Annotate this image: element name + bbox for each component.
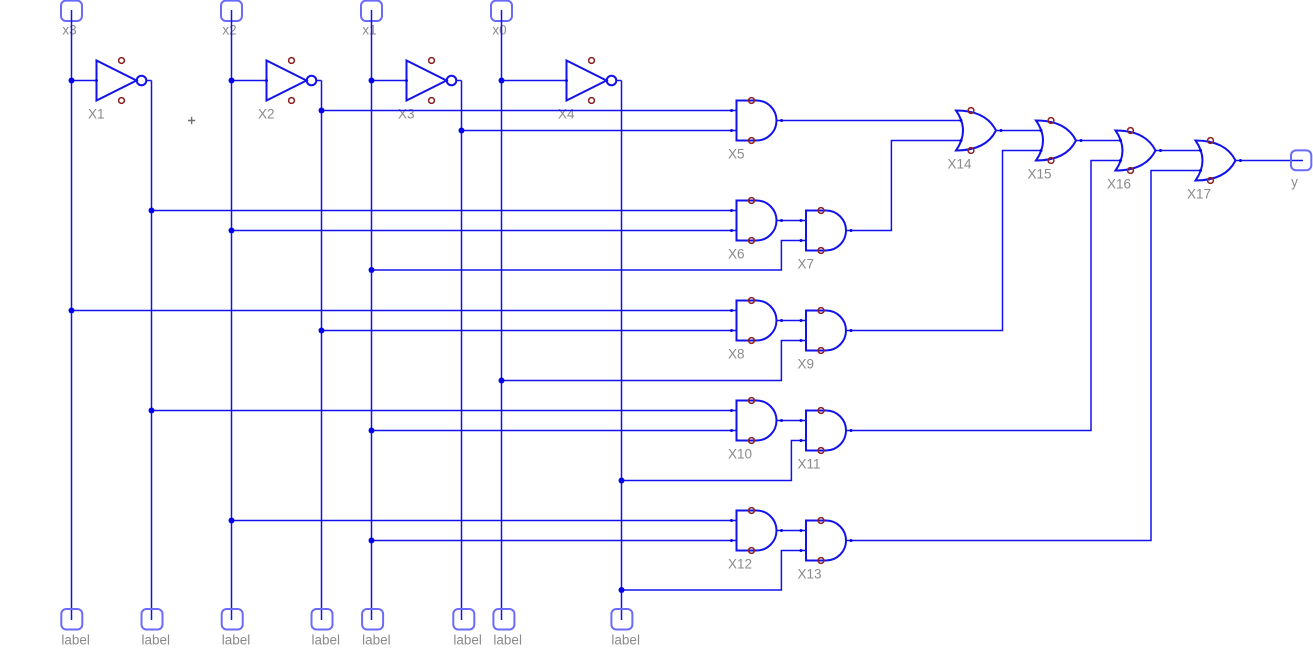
pin X7 in2 pin [800,239,803,242]
pin X12 in2 pin [730,539,733,542]
wire X6 input1 [152,210,737,212]
svg-text:label: label [493,633,522,648]
pin X3 in pin [405,79,408,82]
node x2/X6 [229,228,235,234]
and-gate X11 [806,408,846,454]
and-gate X10 [737,398,777,444]
pin X11 in2 pin [800,439,803,442]
pin X15 in2 pin [1040,149,1043,152]
svg-text:label: label [611,633,640,648]
inverter X2 [267,58,317,104]
wire X1 output to bus [146,80,152,82]
wire x3 to X1 input [72,80,97,82]
wire x3 bus (vertical) [71,10,73,620]
pin X9 in1 pin [800,319,803,322]
svg-text:X13: X13 [798,567,822,582]
svg-text:label: label [61,633,90,648]
wire X16 output to X17 [1156,150,1202,152]
wire X8 input1 [72,310,737,312]
node x0/X4 [499,78,505,84]
pin X9 out pin [850,329,853,332]
port label1 (bottom) [61,609,82,630]
pin X5 in1 pin [730,109,733,112]
or-gate X17 [1196,138,1236,184]
svg-text:X10: X10 [728,447,752,462]
and-gate X7 [806,208,846,254]
wire X6 input2 [232,230,737,232]
svg-text:X1: X1 [88,107,105,122]
port label6 (bottom) [453,609,474,630]
pin X6 out pin [780,219,783,222]
wire X12 input2 [372,540,737,542]
pin X16 out pin [1159,149,1162,152]
or-gate X14 [956,108,996,154]
pin X7 out pin [850,229,853,232]
and-gate X9 [806,308,846,354]
pin X12 out pin [780,529,783,532]
pin X14 out pin [1000,129,1003,132]
wire X10 input2 [372,430,737,432]
node X1out/X10 [149,408,155,414]
wire x2 to X2 input [232,80,267,82]
svg-text:X6: X6 [728,247,745,262]
wire X14 output to X15 [996,130,1042,132]
svg-text:X11: X11 [798,457,821,472]
svg-text:X16: X16 [1107,177,1131,192]
port label8 (bottom) [611,609,632,630]
port label5 (bottom) [362,609,383,630]
pin X11 out pin [850,429,853,432]
port label2 (bottom) [142,609,163,630]
pin X12 in1 pin [730,519,733,522]
pin X4 in pin [565,79,568,82]
wire X5 input2 [462,130,737,132]
cursor plus mark [188,117,195,124]
wire x1 bus (vertical) [371,10,373,620]
or-gate X16 [1116,128,1156,174]
node X2out/X8 [319,328,325,334]
pin X17 in2 pin [1199,169,1202,172]
pin X8 out pin [780,319,783,322]
wire X2-out bus (vertical) [321,81,323,621]
wire x1 to X7 input2 [372,241,807,271]
pin X15 in1 pin [1040,129,1043,132]
wire X9 output to X15 [846,151,1042,331]
pin X13 in1 pin [800,529,803,532]
wire x0 bus (vertical) [501,10,503,620]
pin X17 in1 pin [1199,149,1202,152]
node x1/X7 [369,267,375,273]
wire x0 to X9 input2 [502,341,807,381]
pin X8 in1 pin [730,309,733,312]
svg-text:X8: X8 [728,347,745,362]
wire X2 output to bus [316,80,322,82]
pin X13 out pin [850,539,853,542]
pin X15 out pin [1080,139,1083,142]
wire X17 output to y [1236,160,1304,162]
svg-text:X12: X12 [728,557,752,572]
pin X5 in2 pin [730,129,733,132]
pin X16 in1 pin [1119,139,1122,142]
wire X1-out bus (vertical) [151,81,153,621]
port input x1 [361,1,382,21]
wire X5 output to X14 [777,120,963,122]
pin X6 in2 pin [730,229,733,232]
node x2/X2 [229,78,235,84]
pin X14 in2 pin [960,139,963,142]
wire X4-out to X11 input2 [622,441,807,481]
pin X10 in1 pin [730,409,733,412]
port input x3 [61,1,82,21]
port label3 (bottom) [222,609,243,630]
wire X8 input2 [322,330,737,332]
and-gate X8 [737,298,777,344]
port label7 (bottom) [493,609,514,630]
svg-text:label: label [142,633,171,648]
node x3/X1 [69,78,75,84]
svg-text:X15: X15 [1028,167,1052,182]
port output y [1291,150,1311,170]
svg-text:X5: X5 [728,147,745,162]
or-gate X15 [1036,118,1076,164]
pin X7 in1 pin [800,219,803,222]
port input x2 [221,1,242,21]
port label4 (bottom) [312,609,333,630]
pin X10 out pin [780,419,783,422]
node x0/X9 [499,378,505,384]
pin X9 in2 pin [800,339,803,342]
node x1/X12 [369,538,375,544]
wire X10 output to X11 [777,420,807,422]
wire X7 output to X14 [846,141,962,231]
wire X13 output to X17 [846,171,1202,541]
node x3/X8 [69,308,75,314]
svg-text:x1: x1 [362,23,376,38]
node X1out/X6 [149,208,155,214]
wire X11 output to X16 [846,161,1122,431]
inverter X4 [567,58,617,104]
port input x0 [491,1,512,21]
wire x2 bus (vertical) [231,10,233,620]
svg-text:label: label [222,633,251,648]
svg-text:y: y [1291,175,1298,190]
svg-text:X7: X7 [798,257,815,272]
svg-text:X17: X17 [1187,187,1211,202]
and-gate X6 [737,198,777,244]
pin X8 in2 pin [730,329,733,332]
wire X4-out bus (vertical) [621,81,623,621]
node X4out/X11 [619,478,625,484]
svg-text:x2: x2 [222,23,236,38]
pin X16 in2 pin [1119,159,1122,162]
svg-text:x3: x3 [62,23,76,38]
svg-text:X3: X3 [398,107,415,122]
node X4out/X13 [619,587,625,593]
node x1/X10 [369,428,375,434]
pin X6 in1 pin [730,209,733,212]
and-gate X13 [806,518,846,564]
node x2/X12 [229,518,235,524]
wire X12 input1 [232,520,737,522]
wire X15 output to X16 [1076,140,1122,142]
node X3out/X5 [459,128,465,134]
pin X10 in2 pin [730,429,733,432]
svg-text:X9: X9 [798,357,815,372]
and-gate X12 [737,508,777,554]
wire X10 input1 [152,410,737,412]
wire X6 output to X7 [777,220,807,222]
inverter X1 [97,58,147,104]
svg-text:label: label [453,633,482,648]
node x1/X3 [369,78,375,84]
pin X2 in pin [265,79,268,82]
wire X5 input1 [322,110,737,112]
node X2out/X5 [319,108,325,114]
pin X1 in pin [95,79,98,82]
svg-text:label: label [362,633,391,648]
svg-text:x0: x0 [492,23,506,38]
wire x0 to X4 input [502,80,567,82]
inverter X3 [407,58,457,104]
and-gate X5 [737,98,777,144]
wire X4 output to bus [616,80,622,82]
svg-text:label: label [312,633,341,648]
wire X8 output to X9 [777,320,807,322]
pin X17 out pin [1239,159,1242,162]
pin X13 in2 pin [800,549,803,552]
svg-text:X14: X14 [948,157,973,172]
wire X4-out to X13 input2 [622,551,807,591]
pin X11 in1 pin [800,419,803,422]
wire X3-out bus (vertical) [461,81,463,621]
pin X14 in1 pin [960,119,963,122]
svg-text:X2: X2 [258,107,275,122]
svg-text:X4: X4 [558,107,575,122]
pin X5 out pin [780,119,783,122]
wire X12 output to X13 [777,530,807,532]
wire x1 to X3 input [372,80,407,82]
wire X3 output to bus [456,80,462,82]
